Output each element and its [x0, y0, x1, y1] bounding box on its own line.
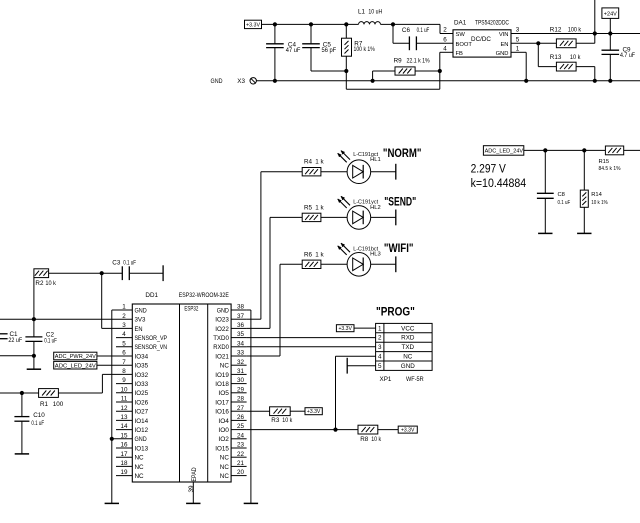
svg-text:BOOT: BOOT: [456, 42, 473, 48]
svg-text:NC: NC: [135, 464, 145, 471]
capacitor C8: [544, 150, 546, 193]
svg-text:C10: C10: [33, 412, 45, 419]
svg-text:HL1: HL1: [370, 157, 381, 163]
svg-text:RXD0: RXD0: [213, 344, 229, 351]
wire GND vertical left of DD1: [111, 310, 113, 503]
svg-text:IO25: IO25: [135, 390, 149, 397]
pin 23 IO15: [231, 447, 247, 449]
svg-text:IO0: IO0: [218, 427, 229, 434]
wire EN to pin 3: [101, 273, 103, 328]
svg-text:IO2: IO2: [218, 436, 229, 443]
capacitor C5: [309, 22, 313, 26]
ground DD1 right: [244, 502, 258, 504]
svg-text:10 k: 10 k: [371, 436, 382, 443]
inductor L1: [359, 22, 381, 25]
svg-text:DA1: DA1: [454, 20, 467, 27]
LED HL1: [347, 160, 371, 184]
svg-text:6: 6: [443, 37, 447, 44]
svg-text:2.297 V: 2.297 V: [471, 164, 507, 176]
pin 11 IO26: [116, 401, 132, 403]
pin 31 IO19: [231, 373, 247, 375]
svg-text:39: 39: [188, 485, 195, 493]
svg-text:TXD0: TXD0: [213, 335, 229, 342]
svg-text:"WIFI": "WIFI": [384, 241, 414, 255]
svg-text:IO16: IO16: [215, 409, 229, 416]
svg-text:IO19: IO19: [215, 372, 229, 379]
wire DA1 GND to rail: [511, 51, 526, 53]
svg-text:4: 4: [443, 46, 447, 53]
resistor R7: [344, 22, 348, 26]
capacitor C4: [273, 22, 277, 26]
svg-text:0.1 uF: 0.1 uF: [123, 260, 136, 267]
pin 4 SENSOR_VP: [116, 337, 132, 339]
svg-text:13: 13: [120, 414, 128, 421]
svg-text:SW: SW: [456, 32, 466, 38]
svg-text:R14: R14: [591, 192, 602, 198]
pin 9 IO33: [116, 383, 132, 385]
svg-text:NC: NC: [220, 363, 230, 370]
svg-text:IO26: IO26: [135, 399, 149, 406]
svg-text:1: 1: [122, 304, 126, 311]
svg-text:22: 22: [237, 451, 245, 458]
svg-text:1: 1: [378, 325, 382, 332]
svg-text:33: 33: [237, 350, 245, 357]
svg-text:100: 100: [53, 401, 64, 408]
wire 3V3 net: [0, 318, 132, 320]
ground DD1 left: [105, 502, 119, 504]
pin 12 IO27: [116, 410, 132, 412]
svg-text:IO12: IO12: [135, 427, 149, 434]
pin 13 IO14: [116, 419, 132, 421]
svg-text:27: 27: [237, 405, 245, 412]
wire C5 to FB node: [311, 70, 346, 72]
svg-text:+3.3V: +3.3V: [246, 23, 260, 29]
pin 22 NC: [231, 456, 247, 458]
svg-text:FB: FB: [456, 51, 464, 57]
wire HL2 to terminator: [371, 216, 396, 218]
net label ADC_PWR_24V: [54, 352, 97, 360]
svg-text:5: 5: [378, 363, 382, 370]
terminator bar HL2: [395, 210, 397, 226]
svg-text:0.1 uF: 0.1 uF: [31, 420, 44, 427]
pin 25 IO0: [231, 429, 247, 431]
resistor R4: [261, 171, 302, 173]
svg-text:8: 8: [122, 368, 126, 375]
svg-text:0.1 uF: 0.1 uF: [417, 27, 430, 34]
svg-text:2: 2: [378, 335, 382, 342]
svg-text:1 k: 1 k: [315, 159, 324, 166]
svg-text:"NORM": "NORM": [383, 146, 422, 160]
svg-text:+24V: +24V: [604, 12, 617, 18]
wire XP1 GND: [347, 365, 375, 367]
svg-text:X3: X3: [237, 78, 245, 85]
svg-text:3: 3: [122, 322, 126, 329]
svg-text:DD1: DD1: [145, 292, 158, 299]
ground C10: [15, 453, 29, 455]
wire GND rail: [256, 80, 640, 82]
resistor R8: [336, 429, 359, 431]
svg-text:SENSOR_VN: SENSOR_VN: [135, 344, 168, 351]
svg-text:25: 25: [237, 423, 245, 430]
resistor R6: [280, 263, 302, 265]
svg-text:WF-5R: WF-5R: [406, 376, 424, 383]
net label ADC_LED_24V left: [54, 361, 97, 369]
svg-text:IO22: IO22: [215, 326, 229, 333]
pin 24 IO2: [231, 438, 247, 440]
capacitor C2: [33, 319, 35, 337]
svg-text:10 uH: 10 uH: [368, 8, 382, 15]
wire C2 gnd tap: [0, 355, 34, 357]
svg-text:HL2: HL2: [370, 205, 381, 211]
LED HL2: [347, 206, 371, 230]
svg-text:XP1: XP1: [380, 376, 392, 383]
pin 14 IO12: [116, 429, 132, 431]
terminator bar C3 right: [162, 265, 164, 281]
svg-text:IO14: IO14: [135, 418, 149, 425]
svg-text:NC: NC: [403, 354, 413, 361]
svg-text:+3.3V: +3.3V: [307, 409, 321, 415]
terminator bar HL1: [395, 164, 397, 180]
svg-text:26: 26: [237, 414, 245, 421]
svg-text:R12: R12: [550, 26, 562, 33]
ground C8: [538, 232, 552, 234]
svg-text:19: 19: [120, 469, 128, 476]
svg-text:R13: R13: [550, 54, 562, 61]
svg-text:22 uF: 22 uF: [8, 337, 22, 344]
resistor R2: [33, 278, 35, 320]
resistor R13: [537, 43, 539, 66]
svg-text:10 k: 10 k: [282, 417, 293, 424]
svg-text:R1: R1: [40, 401, 49, 408]
svg-text:IO5: IO5: [218, 390, 229, 397]
svg-text:EPAD: EPAD: [191, 467, 198, 481]
pin 5 SENSOR_VN: [116, 346, 132, 348]
svg-text:R9: R9: [394, 58, 403, 65]
svg-text:28: 28: [237, 396, 245, 403]
pin 29 IO5: [231, 392, 247, 394]
svg-text:4: 4: [122, 331, 126, 338]
svg-text:R8: R8: [360, 436, 369, 443]
svg-text:5: 5: [122, 340, 126, 347]
svg-text:12: 12: [120, 405, 128, 412]
svg-text:16: 16: [120, 442, 128, 449]
wire pin38 GND to ground: [247, 309, 251, 311]
pin 10 IO25: [116, 392, 132, 394]
svg-text:11: 11: [121, 396, 128, 403]
svg-text:IO23: IO23: [215, 317, 229, 324]
svg-text:IO35: IO35: [135, 363, 149, 370]
svg-text:10 k: 10 k: [570, 54, 581, 61]
svg-text:3: 3: [516, 27, 520, 34]
wire EN line: [511, 42, 556, 44]
svg-text:NC: NC: [220, 455, 230, 462]
resistor R5: [270, 216, 302, 218]
svg-text:IO18: IO18: [215, 381, 229, 388]
pin 34 RXD0: [231, 346, 247, 348]
svg-text:IO17: IO17: [215, 399, 229, 406]
svg-text:C6: C6: [402, 27, 411, 34]
svg-text:IO27: IO27: [135, 409, 149, 416]
svg-text:7: 7: [122, 359, 126, 366]
svg-text:4: 4: [378, 354, 382, 361]
resistor R9: [372, 71, 374, 81]
resistor R14: [583, 150, 585, 190]
node R9 to FB: [438, 69, 442, 73]
wire HL3 to terminator: [371, 263, 396, 265]
svg-text:1 k: 1 k: [315, 204, 324, 211]
power flag +3.3V (output): [245, 20, 262, 28]
ground R14: [577, 232, 591, 234]
svg-text:31: 31: [237, 368, 245, 375]
esp32 module DD1 body: [132, 304, 231, 482]
svg-text:DC/DC: DC/DC: [471, 36, 491, 43]
pin 16 IO13: [116, 447, 132, 449]
svg-text:18: 18: [120, 460, 128, 467]
wire IO22 to R5: [247, 327, 270, 329]
op-amp U: dc-dc converter DA1 TPS54202DDC body: [453, 30, 511, 57]
svg-text:C3: C3: [112, 260, 121, 267]
svg-text:IO33: IO33: [135, 381, 149, 388]
capacitor C9: [609, 34, 611, 51]
terminator bar XP1 GND: [346, 358, 348, 374]
svg-text:37: 37: [237, 313, 245, 320]
pin 35 TXD0: [231, 337, 247, 339]
svg-text:NC: NC: [135, 455, 145, 462]
svg-text:14: 14: [120, 423, 128, 430]
svg-text:IO15: IO15: [215, 445, 229, 452]
svg-text:EN: EN: [135, 326, 143, 333]
svg-text:23: 23: [237, 442, 245, 449]
node R2-C3-EN junction: [100, 271, 104, 275]
svg-text:0.1 uF: 0.1 uF: [558, 200, 571, 206]
svg-text:17: 17: [120, 451, 128, 458]
svg-text:47 uF: 47 uF: [286, 47, 301, 54]
svg-text:ESP32-WROOM-32E: ESP32-WROOM-32E: [179, 292, 229, 299]
svg-text:56 pF: 56 pF: [322, 47, 337, 54]
svg-text:100 k: 100 k: [568, 26, 582, 33]
wire IO0 to R8 node: [247, 429, 336, 431]
terminal X3: [250, 78, 256, 84]
pin 28 IO17: [231, 401, 247, 403]
svg-text:22.1 k 1%: 22.1 k 1%: [407, 58, 431, 65]
power flag +24V: [602, 8, 619, 19]
svg-text:R4: R4: [304, 159, 313, 166]
svg-text:GND: GND: [496, 51, 509, 57]
svg-text:29: 29: [237, 386, 245, 393]
resistor R3: [247, 410, 270, 412]
pin 21 NC: [231, 465, 247, 467]
svg-text:L1: L1: [358, 8, 366, 15]
svg-text:2: 2: [122, 313, 126, 320]
resistor R15: [605, 146, 623, 155]
pin 19 NC: [116, 475, 132, 477]
svg-text:5: 5: [516, 37, 520, 44]
svg-text:36: 36: [237, 322, 245, 329]
pin 36 IO22: [231, 327, 247, 329]
svg-text:0.1 uF: 0.1 uF: [44, 337, 57, 344]
svg-text:IO13: IO13: [135, 445, 149, 452]
terminator bar HL3: [395, 256, 397, 272]
svg-text:NC: NC: [220, 464, 230, 471]
capacitor C6: [392, 24, 394, 43]
svg-text:9: 9: [122, 377, 126, 384]
svg-text:84.5 k 1%: 84.5 k 1%: [599, 166, 621, 172]
connector XP1 WF-5R body: [376, 323, 433, 370]
ground C2: [27, 368, 41, 370]
power flag +3.3V at R3: [305, 408, 322, 415]
svg-text:ESP32: ESP32: [184, 305, 198, 312]
svg-text:IO4: IO4: [218, 418, 229, 425]
svg-text:ADC_LED_24V: ADC_LED_24V: [55, 363, 96, 369]
svg-text:100 k 1%: 100 k 1%: [354, 46, 376, 53]
wire FB loop: [346, 88, 440, 90]
node FB-R7 junction: [344, 69, 348, 73]
svg-text:NC: NC: [220, 473, 230, 480]
svg-text:3V3: 3V3: [135, 317, 146, 324]
pin 18 NC: [116, 465, 132, 467]
resistor R12: [556, 39, 576, 48]
svg-text:34: 34: [237, 340, 245, 347]
svg-text:3: 3: [378, 344, 382, 351]
svg-text:IO34: IO34: [135, 353, 149, 360]
svg-text:15: 15: [120, 432, 128, 439]
svg-text:GND: GND: [135, 307, 148, 314]
svg-text:10: 10: [120, 386, 128, 393]
svg-text:IO32: IO32: [135, 372, 149, 379]
resistor R1: [0, 392, 39, 394]
svg-text:k=10.44884: k=10.44884: [471, 178, 527, 190]
pin 32 NC: [231, 364, 247, 366]
svg-text:VCC: VCC: [401, 325, 415, 332]
svg-text:R6: R6: [304, 251, 313, 258]
svg-text:1 k: 1 k: [315, 251, 324, 258]
svg-text:4.7 uF: 4.7 uF: [620, 52, 635, 59]
wire RXD0 to XP1 TXD: [247, 346, 376, 348]
pin 26 IO4: [231, 419, 247, 421]
svg-text:35: 35: [237, 331, 245, 338]
power flag +3.3V at R8: [398, 426, 417, 433]
svg-text:+3.3V: +3.3V: [338, 326, 352, 332]
svg-text:21: 21: [237, 460, 245, 467]
svg-text:VIN: VIN: [499, 32, 509, 38]
capacitor C1: [0, 333, 8, 335]
wire VIN line: [511, 33, 640, 35]
svg-text:TPS54202DDC: TPS54202DDC: [475, 20, 509, 27]
svg-text:R2: R2: [35, 280, 44, 287]
svg-text:R5: R5: [304, 204, 313, 211]
svg-text:HL3: HL3: [370, 252, 381, 258]
svg-text:32: 32: [237, 359, 245, 366]
power flag +3.3V at XP1 VCC: [336, 325, 354, 332]
svg-text:RXD: RXD: [401, 335, 415, 342]
wire TXD0 to XP1 RXD: [247, 337, 376, 339]
svg-text:2: 2: [443, 27, 447, 34]
LED HL3: [347, 252, 371, 276]
svg-text:C8: C8: [558, 192, 565, 198]
svg-text:NC: NC: [135, 473, 145, 480]
svg-text:GND: GND: [211, 78, 223, 85]
pin 27 IO16: [231, 410, 247, 412]
wire ADC_LED net: [524, 149, 606, 151]
wire VCC: [354, 327, 376, 329]
svg-text:ADC_PWR_24V: ADC_PWR_24V: [55, 354, 96, 360]
svg-text:ADC_LED_24V: ADC_LED_24V: [485, 149, 524, 155]
svg-text:R3: R3: [271, 417, 280, 424]
ground EPAD: [186, 502, 200, 504]
svg-text:"PROG": "PROG": [376, 304, 415, 318]
svg-text:38: 38: [237, 304, 245, 311]
capacitor C3: [102, 272, 123, 274]
pin 38 GND: [231, 309, 247, 311]
svg-text:EN: EN: [500, 42, 508, 48]
svg-text:24: 24: [237, 432, 245, 439]
svg-text:IO21: IO21: [215, 353, 229, 360]
svg-text:30: 30: [237, 377, 245, 384]
pin 20 NC: [231, 475, 247, 477]
svg-text:10 k 1%: 10 k 1%: [591, 200, 608, 206]
pin 17 NC: [116, 456, 132, 458]
node SW junction: [391, 22, 395, 26]
net label ADC_LED_24V right: [483, 146, 523, 156]
svg-text:6: 6: [122, 350, 126, 357]
svg-text:"SEND": "SEND": [384, 194, 416, 208]
wire IO0 to XP1 pin4: [335, 356, 337, 429]
svg-text:10 k: 10 k: [45, 280, 56, 287]
svg-text:+3.3V: +3.3V: [401, 428, 415, 434]
capacitor C10: [21, 393, 23, 417]
node R9 to GND rail: [371, 79, 375, 83]
svg-text:GND: GND: [217, 307, 230, 314]
svg-text:SENSOR_VP: SENSOR_VP: [135, 335, 168, 342]
svg-text:GND: GND: [401, 363, 415, 370]
wire IO21 to R6: [247, 355, 280, 357]
wire L1 to SW: [381, 23, 441, 25]
wire IO23 to R4: [247, 318, 261, 320]
svg-text:GND: GND: [135, 436, 148, 443]
wire +3.3V rail: [262, 23, 359, 25]
wire +24V input feed: [594, 0, 596, 43]
svg-text:R15: R15: [599, 159, 610, 165]
svg-text:TXD: TXD: [401, 344, 414, 351]
pin 33 IO21: [231, 355, 247, 357]
pin 37 IO23: [231, 318, 247, 320]
svg-text:20: 20: [237, 469, 245, 476]
wire HL1 to terminator: [371, 171, 396, 173]
pin 30 IO18: [231, 383, 247, 385]
svg-text:1: 1: [516, 46, 520, 53]
